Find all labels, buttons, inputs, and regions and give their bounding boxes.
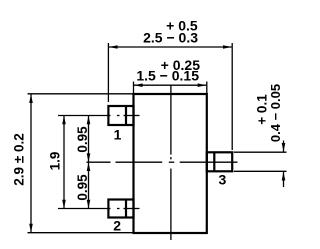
pin 1 centerline bbox=[58, 115, 140, 117]
dimension 1.5 extension line right bbox=[206, 82, 208, 94]
dimension 0.95 middle upper arrow bbox=[87, 153, 91, 162]
dimension 2.5 right arrow bbox=[223, 45, 232, 49]
dimension 0.95 lower line bbox=[88, 163, 90, 208]
package body bbox=[134, 94, 207, 233]
dimension 2.9 value text (rotated) bbox=[12, 133, 27, 185]
svg-text:0.4 − 0.05: 0.4 − 0.05 bbox=[268, 84, 283, 142]
body horizontal centerline (through pin 3) bbox=[87, 161, 238, 163]
svg-text:0.95: 0.95 bbox=[75, 174, 90, 201]
svg-text:2: 2 bbox=[113, 218, 121, 234]
dimension 2.9 top arrow bbox=[29, 94, 33, 103]
svg-text:2.5 − 0.3: 2.5 − 0.3 bbox=[143, 30, 198, 46]
dimension 0.95 top arrow bbox=[87, 116, 91, 125]
dimension 1.5 line bbox=[134, 84, 206, 86]
body vertical centerline bbox=[170, 86, 172, 241]
dimension 0.4 lower arrow (points up) bbox=[282, 172, 286, 181]
dimension 1.9 line bbox=[63, 116, 65, 208]
dimension 2.9 extension line bottom bbox=[28, 232, 134, 234]
pin 2 centerline bbox=[58, 208, 140, 210]
dimension 0.4 tolerance upper text (rotated) bbox=[255, 94, 270, 125]
dimension 0.95 bottom arrow bbox=[87, 200, 91, 209]
dimension 2.9 line bbox=[30, 94, 32, 232]
dimension 2.5 left arrow bbox=[109, 45, 118, 49]
svg-text:0.95: 0.95 bbox=[75, 126, 90, 153]
dimension 2.5 line bbox=[109, 46, 232, 48]
pin 3 foot line bbox=[213, 152, 215, 171]
dimension 0.95 middle lower arrow bbox=[87, 162, 91, 171]
dimension 2.9 extension line top bbox=[28, 93, 134, 95]
dimension 0.4 extension line bottom bbox=[234, 170, 287, 172]
pin 1 bbox=[108, 106, 133, 125]
dimension 0.95 upper line bbox=[88, 116, 90, 162]
dimension 2.9 bottom arrow bbox=[29, 224, 33, 233]
svg-text:2.9 ± 0.2: 2.9 ± 0.2 bbox=[12, 133, 27, 185]
pin 1 foot line bbox=[125, 106, 127, 125]
dimension 1.9 value text (rotated) bbox=[48, 152, 63, 171]
pin 2 foot line bbox=[125, 200, 127, 218]
dimension 0.4 extension line top bbox=[234, 151, 287, 153]
dimension 0.4 upper leader line bbox=[283, 141, 285, 152]
dimension 1.9 top arrow bbox=[62, 116, 66, 125]
dimension 0.95 lower value text (rotated) bbox=[75, 174, 90, 201]
dimension 0.95 upper value text (rotated) bbox=[75, 126, 90, 153]
svg-text:3: 3 bbox=[219, 171, 227, 187]
dimension 2.5 extension line right bbox=[231, 43, 233, 150]
svg-text:1.5 − 0.15: 1.5 − 0.15 bbox=[136, 68, 199, 84]
pin 3 bbox=[207, 152, 232, 171]
svg-text:1.9: 1.9 bbox=[48, 152, 63, 171]
dimension 0.4 lower leader line bbox=[283, 172, 285, 187]
dimension 1.9 bottom arrow bbox=[62, 200, 66, 209]
dimension 2.5 extension line left bbox=[107, 43, 109, 102]
dimension 1.5 extension line left bbox=[133, 82, 135, 94]
svg-text:1: 1 bbox=[114, 127, 122, 143]
pin 2 bbox=[108, 200, 133, 218]
dimension 0.4 value text (rotated) bbox=[268, 84, 283, 142]
dimension 0.4 upper arrow (points down) bbox=[282, 143, 286, 152]
dimension 1.5 left arrow bbox=[134, 83, 143, 87]
dimension 1.5 right arrow bbox=[198, 83, 207, 87]
